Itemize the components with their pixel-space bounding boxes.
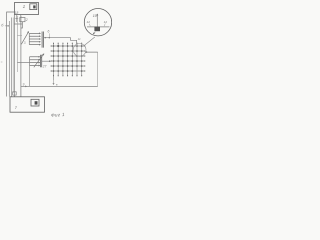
bus wire A xyxy=(8,21,10,97)
wire bus stub xyxy=(17,34,22,36)
svg-text:1: 1 xyxy=(23,4,25,9)
svg-text:9: 9 xyxy=(23,83,25,87)
commutator 3 bar xyxy=(42,32,43,48)
commutator 4 bar xyxy=(40,55,41,68)
core 12 body xyxy=(94,27,100,32)
feedback wire bottom xyxy=(21,85,98,87)
commutator 4 wiper arrow xyxy=(34,54,44,67)
matrix 8 column end caps xyxy=(54,43,82,76)
svg-text:18: 18 xyxy=(15,11,19,15)
wire stub 2 xyxy=(20,15,22,18)
block 1 xyxy=(15,3,39,15)
leader 12 left xyxy=(89,24,90,26)
svg-text:Фиг 1: Фиг 1 xyxy=(51,112,65,118)
commutator 3 wiper arrow xyxy=(21,32,28,45)
wire stub from block 1 xyxy=(16,15,18,23)
tick a xyxy=(1,61,3,63)
leader 12 right xyxy=(104,23,105,26)
matrix 8 rows xyxy=(51,46,85,71)
arrowhead wire xyxy=(45,37,46,38)
wire bus to commutator 4 xyxy=(17,62,29,64)
detail circle 10 xyxy=(84,9,111,36)
wire commutator 4 to matrix row xyxy=(42,61,51,62)
svg-text:11: 11 xyxy=(78,37,81,41)
commutator 3 left rail xyxy=(28,33,30,44)
detail mark circle on matrix xyxy=(73,44,86,57)
wire matrix column return xyxy=(53,80,55,84)
leader 6 xyxy=(48,33,50,37)
arrowhead column return xyxy=(53,83,54,84)
svg-text:10: 10 xyxy=(93,14,97,18)
core arrow xyxy=(93,32,95,34)
wire commutator 4 rail down xyxy=(29,66,31,87)
svg-text:12: 12 xyxy=(104,20,108,24)
leader line to detail circle xyxy=(84,37,94,45)
bus wire F xyxy=(20,16,22,97)
commutator 3 input lines xyxy=(29,33,40,44)
svg-text:12: 12 xyxy=(87,20,91,24)
commutator 4 left rail xyxy=(29,57,31,66)
bus wire B xyxy=(11,18,13,97)
commutator 4 arrowheads xyxy=(39,56,40,66)
junction mark xyxy=(56,84,57,85)
detail horizontal wire xyxy=(87,26,110,28)
svg-text:2: 2 xyxy=(25,18,28,22)
feedback wire vertical xyxy=(97,52,99,86)
commutator 4 input lines xyxy=(30,57,40,66)
wire commutator 3 to matrix xyxy=(44,38,77,44)
svg-text:6: 6 xyxy=(48,30,50,34)
indicator window in block 1 xyxy=(30,4,37,10)
feedback wire arrow xyxy=(86,52,98,53)
arrow 9 xyxy=(25,86,26,87)
bus wire D xyxy=(13,15,15,97)
detail vertical wire xyxy=(96,14,98,27)
wire input bus to block 1 xyxy=(7,12,15,97)
arrowhead detail vertical xyxy=(97,14,98,15)
commutator 3 arrowheads xyxy=(39,33,40,45)
element 2 xyxy=(20,18,25,22)
cap on stub xyxy=(13,92,17,95)
bus wire C xyxy=(12,18,14,94)
matrix 8 core dots xyxy=(53,45,83,72)
block 8 (bottom) xyxy=(10,97,45,112)
tick xyxy=(15,18,18,20)
svg-text:27: 27 xyxy=(42,64,47,68)
matrix 8 row end caps xyxy=(51,46,85,71)
matrix 8 columns xyxy=(54,43,82,80)
wire from element 2 xyxy=(14,22,22,28)
arrow b xyxy=(5,25,9,26)
svg-text:3: 3 xyxy=(24,41,26,45)
bus wire E xyxy=(16,16,18,72)
indicator window in block 8 xyxy=(31,99,39,106)
